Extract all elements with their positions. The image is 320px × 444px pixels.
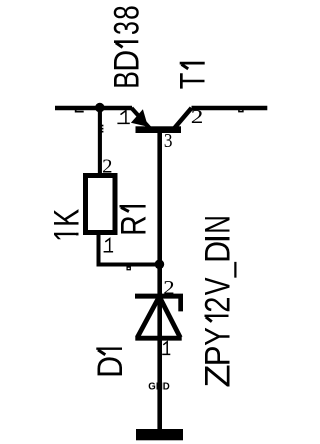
svg-text:Z: Z: [198, 364, 237, 387]
svg-text:2: 2: [163, 277, 174, 299]
node A junction dot (emitter net / resistor): [95, 103, 105, 113]
svg-text:N: N: [198, 215, 237, 234]
pin number 1 (resistor R1 bottom): [104, 239, 114, 252]
svg-text:2: 2: [191, 106, 204, 128]
svg-text:1K: 1K: [48, 209, 87, 242]
svg-text:P: P: [198, 346, 237, 367]
tiny pin-name mark on emitter wire: [76, 107, 84, 112]
wire from resistor R1 pin 1 to node B (L-shape): [99, 235, 160, 265]
tiny pin-name mark on collector wire: [239, 109, 243, 112]
svg-text:D: D: [107, 50, 146, 72]
wire transistor base column through diode D1 to ground: [157, 133, 162, 429]
svg-text:R: R: [115, 215, 154, 236]
svg-text:D: D: [91, 356, 130, 378]
svg-text:V: V: [198, 277, 237, 295]
value label ZPY12V_DIN (zener diode D1): [198, 215, 237, 388]
svg-text:3: 3: [164, 130, 173, 152]
diode D1 anode triangle: [135, 297, 181, 339]
wire from node A down to resistor R1 pin 2: [98, 106, 102, 174]
svg-text:_: _: [198, 262, 237, 278]
svg-text:8: 8: [107, 5, 146, 20]
tiny pin-name mark square on node B wire: [127, 267, 130, 270]
svg-text:GND: GND: [148, 381, 170, 393]
diode D1 zener cathode bar with hook: [135, 294, 183, 312]
resistor R1: [86, 176, 116, 233]
wire emitter net (top-left horizontal): [55, 106, 132, 111]
name label R1 (resistor): [115, 206, 154, 236]
pin number 1 (transistor T1 emitter): [117, 111, 129, 124]
ground symbol: [136, 429, 183, 440]
wire collector net (top-right horizontal): [192, 106, 268, 111]
svg-text:B: B: [107, 71, 146, 89]
svg-text:I: I: [198, 234, 237, 244]
white patches removing Liberation's foot serif on label "1" glyphs: [75, 227, 80, 241]
svg-text:2: 2: [102, 155, 112, 177]
pin number 1 (diode D1 anode): [162, 342, 170, 355]
svg-text:Y: Y: [198, 327, 237, 346]
svg-text:3: 3: [107, 21, 146, 35]
tiny pin-name mark ticks on resistor column wire: [100, 125, 103, 133]
transistor T1 (PNP, base bar + emitter arrow + collector): [131, 108, 192, 133]
svg-text:T: T: [174, 73, 213, 90]
value label BD138 (transistor T1): [107, 5, 146, 89]
name label T1 (transistor): [174, 63, 213, 89]
svg-text:2: 2: [198, 297, 237, 313]
node B junction dot (resistor / diode): [155, 260, 165, 270]
name label D1 (zener diode): [91, 349, 130, 378]
